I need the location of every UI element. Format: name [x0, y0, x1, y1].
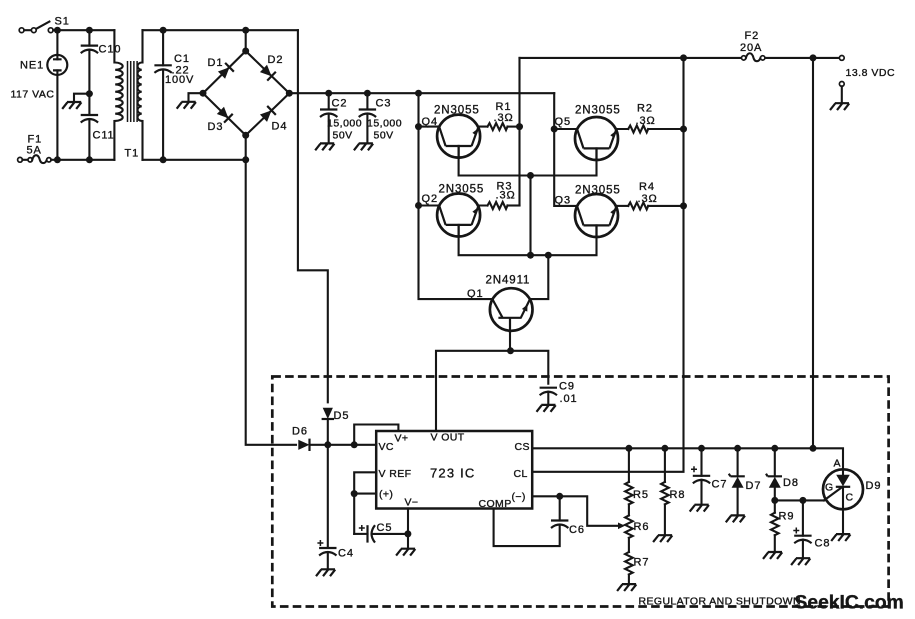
diode D6 [298, 439, 309, 451]
svg-text:20A: 20A [740, 42, 762, 54]
svg-text:NE1: NE1 [20, 60, 44, 72]
wire top primary rail [57, 29, 114, 31]
svg-text:117 VAC: 117 VAC [11, 89, 55, 101]
wire collector feed right column [554, 93, 577, 206]
svg-text:2N3055: 2N3055 [434, 105, 480, 117]
wire output line [520, 57, 840, 59]
svg-text:.3Ω: .3Ω [638, 193, 658, 205]
zener D8 [766, 445, 782, 501]
wire CS line [532, 448, 843, 475]
svg-text:C1: C1 [174, 53, 190, 65]
svg-text:C7: C7 [712, 479, 728, 491]
svg-text:Q2: Q2 [422, 193, 438, 205]
svg-text:Q5: Q5 [555, 116, 571, 128]
svg-text:D2: D2 [268, 54, 284, 66]
node D5/D6 cathode junction [324, 441, 331, 448]
svg-text:.3Ω: .3Ω [636, 115, 656, 127]
svg-text:R5: R5 [633, 489, 649, 501]
svg-text:Q4: Q4 [422, 116, 438, 128]
wire COMP to C6 bottom [494, 509, 560, 547]
transistor Q4 2N3055 [419, 115, 488, 158]
transformer T1 core [128, 61, 138, 122]
svg-text:C6: C6 [569, 524, 585, 536]
svg-text:S1: S1 [55, 16, 70, 28]
svg-text:(−): (−) [512, 491, 526, 503]
transistor Q5 2N3055 [554, 117, 628, 160]
wire AC phase A feed to D5 [298, 30, 328, 402]
svg-text:R7: R7 [634, 557, 650, 569]
resistor R7 [617, 552, 636, 591]
node Q5 collector [551, 126, 558, 133]
node output to x683 column [680, 54, 687, 61]
node bridge right vertex [286, 90, 293, 97]
node secondary bottom junction [242, 156, 249, 163]
node output sense takeoff [810, 54, 817, 61]
node bridge top rail [242, 27, 249, 34]
svg-text:100V: 100V [165, 74, 194, 86]
wire secondary bottom rail [143, 159, 246, 161]
transformer T1 primary winding [114, 30, 122, 160]
node bridge top vertex [242, 48, 249, 55]
resistor R2 .3ohm [628, 126, 683, 133]
wire secondary top rail [143, 29, 298, 31]
svg-text:(+): (+) [379, 489, 393, 501]
svg-text:D9: D9 [866, 480, 882, 492]
terminal 13.8 VDC [839, 56, 844, 61]
wire VREF/(+) loop [354, 472, 376, 534]
svg-text:Q3: Q3 [555, 195, 571, 207]
svg-text:15,000: 15,000 [367, 118, 402, 130]
svg-text:.3Ω: .3Ω [496, 190, 516, 202]
wire bottom primary rail [57, 159, 114, 161]
resistor R4 .3ohm [628, 202, 683, 209]
transformer T1 secondary winding [138, 30, 143, 160]
svg-text:CS: CS [515, 441, 530, 453]
wire AC phase B feed to D6 [246, 135, 296, 445]
diode D3 [216, 106, 233, 123]
svg-text:D6: D6 [292, 426, 308, 438]
svg-text:2N3055: 2N3055 [575, 105, 621, 117]
wire V- pin to ground [407, 509, 409, 549]
wire output sense column [812, 58, 814, 448]
capacitor C5 [354, 525, 408, 542]
node Q2 collector [415, 202, 422, 209]
svg-text:REGULATOR AND SHUTDOWN: REGULATOR AND SHUTDOWN [639, 596, 801, 608]
resistor R9 [763, 500, 782, 559]
svg-text:50V: 50V [374, 130, 394, 142]
svg-text:R2: R2 [637, 103, 653, 115]
wire (-) line [532, 496, 618, 526]
svg-text:R9: R9 [779, 511, 795, 523]
svg-text:R6: R6 [634, 521, 650, 533]
wire output column x=519.5 [518, 58, 520, 206]
svg-text:5A: 5A [27, 145, 42, 157]
svg-text:D5: D5 [334, 410, 350, 422]
svg-text:C9: C9 [559, 381, 575, 393]
svg-text:D7: D7 [746, 480, 762, 492]
node base tie top [527, 172, 534, 179]
svg-text:D3: D3 [208, 121, 224, 133]
capacitor C4 [316, 445, 336, 576]
wire Q1 emitter to base line [530, 255, 549, 299]
resistor R1 .3ohm [488, 123, 520, 130]
svg-text:V−: V− [405, 497, 419, 509]
node C10/C11 mid + ground stub [62, 90, 93, 109]
node Q4 collector [415, 123, 422, 130]
fuse F1 5A [18, 155, 58, 163]
svg-text:2N3055: 2N3055 [575, 185, 621, 197]
potentiometer R6 [625, 515, 633, 552]
wire V+ loop [354, 425, 398, 445]
svg-text:C2: C2 [332, 98, 348, 110]
svg-text:VC: VC [379, 441, 394, 453]
node R1 to output column [516, 123, 523, 130]
node VREF-(+) junction [351, 490, 358, 497]
resistor R5 [625, 445, 633, 516]
diode D5 [322, 408, 334, 419]
svg-text:V+: V+ [395, 433, 409, 445]
wire output column to CL [532, 58, 683, 472]
svg-text:R4: R4 [639, 181, 655, 193]
bridge frame wires [203, 30, 289, 135]
node output sense to CS line [810, 445, 817, 452]
svg-text:13.8 VDC: 13.8 VDC [846, 67, 896, 79]
node C6 top [556, 493, 563, 500]
svg-text:2N4911: 2N4911 [486, 275, 531, 287]
wire base tie vertical [529, 176, 531, 256]
node R2 to output column [680, 126, 687, 133]
svg-text:C: C [846, 492, 854, 504]
wire raw DC rail [289, 92, 554, 94]
svg-text:D1: D1 [208, 57, 224, 69]
SCR D9 [823, 469, 863, 541]
svg-text:C5: C5 [377, 522, 393, 534]
diode D2 [259, 64, 276, 81]
capacitor C8 [791, 500, 812, 565]
svg-text:COMP: COMP [479, 498, 512, 510]
diode D4 [259, 106, 276, 123]
capacitor C1 [154, 27, 171, 164]
svg-text:A: A [834, 458, 842, 470]
node C8 top [799, 497, 806, 504]
ground bridge left [177, 93, 203, 109]
node primary bottom junction [54, 156, 61, 163]
node base tie bottom [527, 252, 534, 259]
node C11 bottom [86, 156, 93, 163]
svg-text:723 IC: 723 IC [430, 466, 476, 481]
node raw rail to collector feed [415, 90, 422, 97]
svg-text:50V: 50V [333, 130, 353, 142]
wire base line upper Q4-Q5 [459, 146, 597, 176]
svg-text:15,000: 15,000 [327, 118, 362, 130]
wire Q1 base to VOUT line [509, 333, 511, 351]
regulator and shutdown dashed box [272, 377, 888, 607]
op-amp U1 723 IC box [376, 431, 532, 509]
svg-text:T1: T1 [125, 148, 140, 160]
diode D1 [217, 63, 234, 80]
svg-text:Q1: Q1 [467, 288, 483, 300]
transistor Q3 2N3055 [575, 194, 628, 237]
svg-text:C4: C4 [338, 548, 354, 560]
arrow to R6 wiper [618, 523, 625, 530]
svg-text:SeekIC.com: SeekIC.com [795, 593, 904, 614]
transistor Q1 2N4911 [490, 288, 533, 333]
wire VOUT line [436, 351, 548, 431]
wire gate line [775, 499, 824, 501]
wire collector feed left column [419, 93, 493, 299]
capacitor C2 [315, 90, 337, 151]
svg-text:C10: C10 [99, 44, 122, 56]
svg-text:C8: C8 [815, 538, 831, 550]
node C5/V- junction [404, 530, 411, 537]
neon lamp NE1 [47, 30, 67, 160]
node primary top junction [54, 27, 61, 34]
terminal output ground [830, 82, 849, 111]
node Q1 base on VOUT line [507, 347, 514, 354]
capacitor C11 [81, 94, 98, 160]
resistor R8 [653, 445, 672, 542]
svg-text:.01: .01 [560, 393, 578, 405]
svg-text:V REF: V REF [379, 468, 412, 480]
fuse F2 20A [742, 53, 765, 61]
wire VC line [312, 444, 377, 446]
node bridge bottom vertex [242, 132, 249, 139]
node D8/R9/gate junction [771, 497, 778, 504]
svg-text:C3: C3 [376, 98, 392, 110]
capacitor C6 [551, 496, 568, 528]
svg-text:V OUT: V OUT [431, 432, 465, 444]
ground V- [396, 549, 415, 556]
capacitor C10 [81, 30, 98, 93]
svg-text:CL: CL [514, 468, 528, 480]
node bridge left vertex [200, 90, 207, 97]
svg-text:C11: C11 [93, 130, 115, 142]
node C10 top [86, 27, 93, 34]
resistor R3 .3ohm [488, 202, 520, 209]
svg-text:D4: D4 [272, 121, 288, 133]
svg-text:F2: F2 [745, 30, 760, 42]
transistor Q2 2N3055 [419, 194, 488, 237]
node R4 to output column [680, 202, 687, 209]
capacitor C7 [690, 445, 711, 512]
svg-text:G: G [825, 482, 834, 494]
svg-text:2N3055: 2N3055 [439, 184, 485, 196]
svg-text:D8: D8 [783, 477, 799, 489]
capacitor C3 [354, 90, 376, 151]
node V+ takeoff [351, 441, 358, 448]
capacitor C9 .01 [537, 388, 558, 412]
zener D7 [726, 445, 745, 523]
switch S1 [19, 22, 57, 33]
wire base line lower Q2-Q3 [459, 225, 597, 255]
node Q1 emitter feed [545, 252, 552, 259]
svg-text:R8: R8 [670, 489, 686, 501]
svg-text:.3Ω: .3Ω [494, 112, 514, 124]
